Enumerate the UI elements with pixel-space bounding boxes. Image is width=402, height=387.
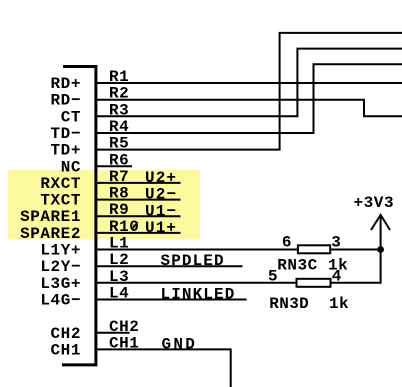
svg-text:SPDLED: SPDLED xyxy=(161,252,225,270)
svg-text:SPARE1: SPARE1 xyxy=(20,208,81,226)
junction dot xyxy=(377,246,384,253)
wire R2 RD- xyxy=(96,100,402,117)
svg-text:RN3C 1k: RN3C 1k xyxy=(277,257,348,275)
svg-text:CH1: CH1 xyxy=(109,334,139,352)
svg-text:RN3D 1k: RN3D 1k xyxy=(269,295,349,313)
connector J1 body xyxy=(62,67,96,365)
svg-text:CT: CT xyxy=(61,108,81,126)
svg-text:RXCT: RXCT xyxy=(40,175,81,193)
svg-text:R8: R8 xyxy=(109,185,129,203)
svg-text:L4: L4 xyxy=(109,285,129,303)
svg-text:CH2: CH2 xyxy=(109,318,139,336)
svg-text:L4G−: L4G− xyxy=(40,292,81,310)
svg-text:CH2: CH2 xyxy=(51,325,81,343)
wire R9 net U1- xyxy=(96,215,181,217)
svg-text:RD−: RD− xyxy=(51,92,81,110)
svg-text:L2: L2 xyxy=(109,251,129,269)
svg-text:SPARE2: SPARE2 xyxy=(20,225,81,243)
svg-text:NC: NC xyxy=(61,158,81,176)
svg-text:R9: R9 xyxy=(109,201,129,219)
resistor RN3C body xyxy=(298,245,330,253)
svg-text:R5: R5 xyxy=(109,135,129,153)
svg-text:GND: GND xyxy=(162,335,197,353)
wire +3V3 vertical rail xyxy=(380,215,382,284)
wire RN3C pin3 to +3V3 rail xyxy=(330,249,380,251)
svg-text:RD+: RD+ xyxy=(51,75,81,93)
wire R4 TD- xyxy=(96,64,402,133)
svg-text:R7: R7 xyxy=(109,168,129,186)
svg-text:L1Y+: L1Y+ xyxy=(40,242,81,260)
wire R8 net U2- xyxy=(96,199,181,201)
svg-text:R6: R6 xyxy=(109,151,129,169)
wire R3 CT xyxy=(96,49,402,117)
svg-text:L3: L3 xyxy=(109,268,129,286)
wire CH1 net GND xyxy=(96,349,231,387)
wire L4 net LINKLED xyxy=(96,299,247,301)
svg-text:6: 6 xyxy=(282,234,292,252)
power symbol +3V3 arrow xyxy=(371,215,390,230)
svg-text:L3G+: L3G+ xyxy=(40,275,81,293)
wire R6 NC stub xyxy=(96,165,132,167)
svg-text:TD−: TD− xyxy=(51,125,81,143)
svg-text:U1+: U1+ xyxy=(145,219,177,237)
svg-text:+3V3: +3V3 xyxy=(354,194,395,212)
svg-text:L2Y−: L2Y− xyxy=(40,258,81,276)
svg-text:L1: L1 xyxy=(109,235,129,253)
wire RN3D pin4 to +3V3 rail xyxy=(331,282,381,284)
wire R10 net U1+ xyxy=(96,232,181,234)
svg-text:U2+: U2+ xyxy=(145,169,177,187)
wire R5 TD+ xyxy=(96,33,402,150)
svg-text:TD+: TD+ xyxy=(51,142,81,160)
wire L1 to RN3C xyxy=(96,249,298,251)
svg-text:U1−: U1− xyxy=(145,202,177,220)
svg-text:R2: R2 xyxy=(109,85,129,103)
svg-text:3: 3 xyxy=(331,234,341,252)
svg-text:R3: R3 xyxy=(109,101,129,119)
wire R7 net U2+ xyxy=(96,182,181,184)
slashed zero of R10 xyxy=(132,222,137,229)
wire R1 RD+ xyxy=(96,82,402,84)
wire L3 to RN3D xyxy=(96,282,297,284)
wire L2 net SPDLED xyxy=(96,265,243,267)
highlight annotation xyxy=(8,170,200,240)
svg-text:CH1: CH1 xyxy=(51,341,81,359)
svg-text:R1: R1 xyxy=(109,68,129,86)
svg-text:LINKLED: LINKLED xyxy=(161,286,236,304)
resistor RN3D body xyxy=(297,279,331,287)
wire CH2 stub xyxy=(96,332,130,334)
svg-text:U2−: U2− xyxy=(145,186,177,204)
svg-text:TXCT: TXCT xyxy=(40,192,81,210)
svg-text:R4: R4 xyxy=(109,118,129,136)
